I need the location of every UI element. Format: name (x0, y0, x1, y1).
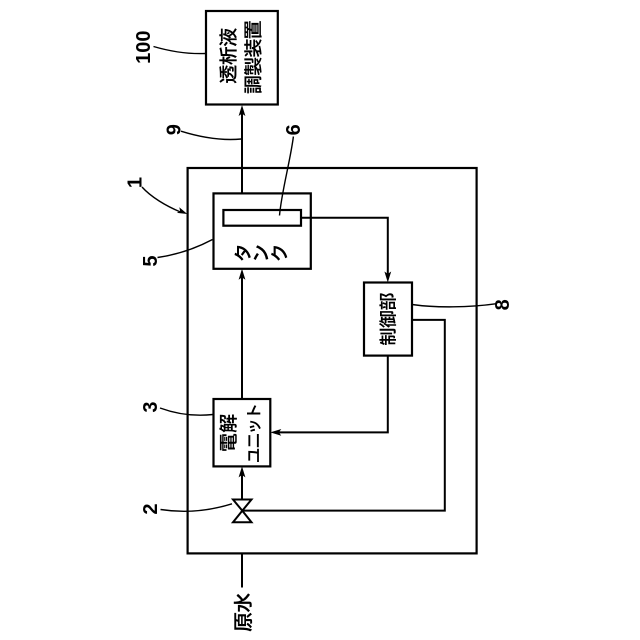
leader line for 5 (158, 240, 213, 258)
arrowhead into dialysate device (239, 105, 246, 116)
arrowhead of leader 1 (177, 207, 187, 214)
box 1 system enclosure (188, 168, 477, 553)
text 調製装置 col (244, 21, 262, 93)
label 原水 raw water (234, 593, 252, 631)
text 制御部 control unit (379, 293, 396, 345)
svg-text:2: 2 (140, 503, 162, 514)
leader line for 9 (181, 131, 241, 139)
leader line for 1 with arrow (142, 187, 181, 212)
arrowhead into electrolysis bottom (239, 466, 246, 477)
arrowhead into electrolysis right (270, 429, 281, 436)
svg-text:3: 3 (140, 401, 162, 412)
box 100 dialysate preparation device (206, 11, 278, 105)
box 8 control unit (364, 283, 412, 356)
arrowhead into tank bottom (239, 269, 246, 280)
svg-text:6: 6 (283, 124, 305, 135)
svg-text:8: 8 (492, 299, 514, 310)
text 電解 col (219, 415, 237, 451)
wire valve to electrolysis (241, 472, 243, 500)
wire raw-water inlet (241, 522, 243, 587)
svg-text:5: 5 (140, 255, 162, 266)
svg-text:1: 1 (125, 177, 147, 188)
box 3 electrolysis unit (214, 399, 271, 466)
svg-text:9: 9 (164, 124, 186, 135)
leader line for 100 (154, 47, 206, 54)
leader line for 6 (280, 137, 294, 216)
wire sensor to control (301, 218, 388, 277)
arrowhead into control top (384, 272, 391, 283)
wire control to electrolysis (276, 356, 388, 433)
leader line for 2 (161, 504, 233, 512)
svg-text:100: 100 (133, 31, 155, 64)
wire 9 tank to dialysate device (241, 111, 243, 193)
box 6 sensor in tank (223, 210, 301, 226)
text タンク tank (235, 245, 288, 260)
leader line for 8 (412, 304, 496, 307)
text 透析液 col (219, 28, 237, 83)
wire electrolysis to tank (241, 275, 243, 399)
text ユニット col (247, 405, 261, 462)
leader line for 3 (160, 408, 213, 415)
valve 2 bowtie symbol (233, 500, 252, 523)
box 5 tank (214, 193, 311, 268)
wire control to valve (242, 320, 444, 511)
